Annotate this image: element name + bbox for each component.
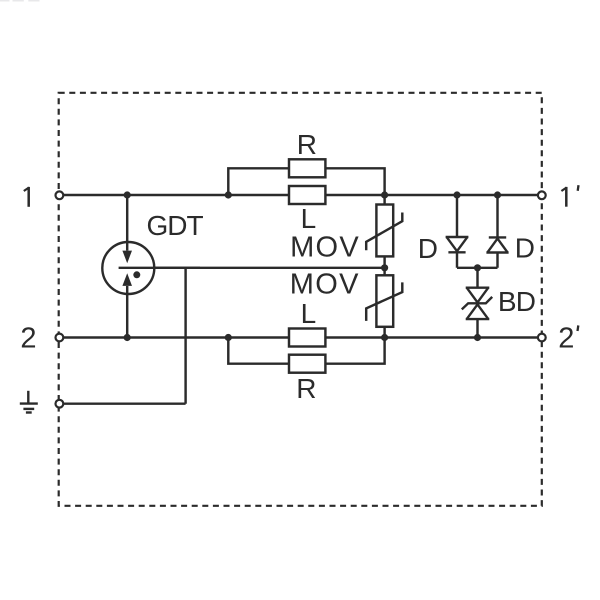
suppressor diode BD (bidirectional) [462,288,492,319]
resistor R lower box [289,355,325,373]
terminal 2' circle [538,334,546,342]
label 1' [561,185,578,207]
junction node: line2 / BD bottom [474,334,481,341]
junction node: line2 / GDT [124,334,131,341]
wire: GDT center electrode to MOV midpoint node [119,267,385,269]
wire: diode pair bottom node link [457,267,498,269]
label 1 [24,187,29,207]
label BD [498,286,535,317]
svg-text:MOV: MOV [290,269,360,301]
junction node: line1 / upper RL left [225,191,232,198]
wire: ground riser (crosses line 2 without junction) [184,268,186,404]
junction node: line2 / lower RL right + MOV2 [381,334,388,341]
wire: diode D left stubs [456,195,458,268]
svg-text:R: R [297,129,317,160]
terminal earth circle [56,400,64,408]
svg-text:D: D [515,233,535,264]
svg-text:L: L [301,203,317,234]
svg-text:2: 2 [558,322,574,354]
GDT circle [102,242,154,294]
label L lower [301,298,317,329]
label 2 [20,322,36,354]
label D left [418,233,438,264]
ground symbol [20,391,38,413]
GDT top arrow [122,195,132,263]
svg-text:MOV: MOV [290,232,360,264]
junction node: MOV midpoint [381,264,388,271]
svg-text:D: D [418,233,438,264]
svg-text:BD: BD [498,286,535,317]
dashed enclosure border [59,93,542,506]
label R lower [296,373,316,404]
junction node: line2 / lower RL left [225,334,232,341]
svg-text:GDT: GDT [147,210,204,241]
GDT bottom arrow [122,273,132,337]
junction node: line1 / D right [494,191,501,198]
inductor L lower box [289,329,325,347]
inductor L upper box [289,186,325,204]
diode D right (cathode up, anode down) [486,237,508,252]
wire: BD stubs [476,268,478,338]
terminal 2 circle [56,334,64,342]
terminal 1 circle [56,191,64,199]
wire: upper R branch [228,168,384,195]
varistor MOV1 box [376,205,393,257]
svg-text:L: L [301,298,317,329]
label MOV upper [290,232,360,264]
wire: ground horizontal to earth terminal [64,402,186,404]
faint top-edge crop artifact dashes [0,0,40,2]
label R upper [297,129,317,160]
junction node: line1 / D left [453,191,460,198]
GDT isotope dot [133,271,140,278]
junction node: line1 / upper RL right + MOV1 [381,191,388,198]
wire: line 1 from terminal 1 to terminal 1' [64,194,538,196]
svg-text:R: R [296,373,316,404]
wire: MOV2 stubs [383,268,385,338]
junction node: line1 / GDT [124,191,131,198]
svg-text:2: 2 [20,322,36,354]
terminal 1' circle [538,191,546,199]
wire: diode D right stubs [496,195,498,268]
varistor MOV2 diagonal [366,282,402,321]
varistor MOV1 diagonal [366,213,402,251]
wire: lower R branch [228,338,384,364]
diode D left (anode up, cathode down) [446,237,469,252]
varistor MOV2 box [376,275,393,327]
resistor R upper box [289,159,325,177]
wire: line 2 from terminal 2 to terminal 2' [64,336,538,338]
junction node: diode pair / BD top [474,264,481,271]
wire: MOV1 stubs [383,195,385,268]
label MOV lower [290,269,360,301]
label L upper [301,203,317,234]
label 2' [558,322,578,354]
label GDT [147,210,204,241]
label D right [515,233,535,264]
GDT center electrode line [119,267,200,269]
